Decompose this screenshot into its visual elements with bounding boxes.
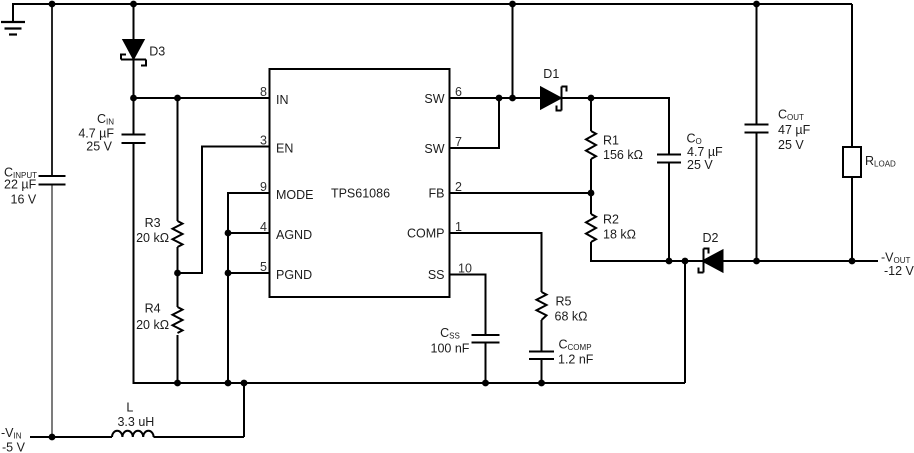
svg-text:22 µF: 22 µF — [4, 178, 37, 192]
svg-text:R2: R2 — [603, 213, 619, 227]
node dot top rail SW drop — [509, 1, 516, 8]
node dot AGND — [225, 230, 232, 237]
svg-text:R1: R1 — [603, 134, 619, 148]
node dot IN/C_IN — [130, 95, 137, 102]
resistor R1 — [586, 131, 596, 159]
diode D1 schottky — [541, 87, 567, 111]
resistor R4 — [173, 307, 183, 333]
svg-text:25 V: 25 V — [687, 158, 713, 172]
resistor R3 — [173, 221, 183, 247]
node dot PGND — [225, 270, 232, 277]
svg-text:CCOMP: CCOMP — [559, 338, 592, 353]
wire -Vout to bottom rail — [684, 261, 686, 383]
wire D3 to IN node — [133, 60, 135, 98]
svg-text:-VOUT: -VOUT — [881, 251, 911, 266]
node dot rail drop — [682, 258, 689, 265]
wire top ground rail — [13, 4, 852, 22]
wire SW pin7 jog — [449, 98, 500, 148]
svg-text:6: 6 — [455, 85, 462, 99]
wire -Vin right of inductor — [154, 436, 245, 438]
wire MODE pin drop — [228, 193, 271, 383]
svg-text:20 kΩ: 20 kΩ — [136, 231, 169, 245]
svg-text:1: 1 — [455, 220, 462, 234]
svg-text:PGND: PGND — [276, 268, 312, 282]
wire R_LOAD bottom — [851, 177, 853, 261]
node dot rail C_OUT bottom — [753, 258, 760, 265]
wire SW node drop from top rail — [512, 4, 514, 98]
svg-text:9: 9 — [260, 180, 267, 194]
wire R1 top — [590, 98, 592, 131]
svg-text:4.7 µF: 4.7 µF — [687, 145, 723, 159]
svg-text:CSS: CSS — [440, 326, 460, 341]
node dot SW7 join — [496, 95, 503, 102]
svg-text:SW: SW — [424, 142, 444, 156]
resistor R5 — [537, 292, 547, 320]
wire R1 bottom to FB — [590, 159, 592, 193]
svg-text:2: 2 — [455, 180, 462, 194]
wire AGND pin — [228, 232, 271, 234]
capacitor C_IN — [122, 135, 146, 144]
svg-text:8: 8 — [260, 85, 267, 99]
wire R2 bottom to -Vout rail — [591, 242, 703, 261]
svg-text:100 nF: 100 nF — [431, 341, 470, 355]
svg-text:TPS61086: TPS61086 — [331, 187, 390, 201]
svg-text:SW: SW — [424, 92, 444, 106]
svg-text:1.2 nF: 1.2 nF — [558, 353, 594, 367]
node dot top rail C_OUT — [753, 1, 760, 8]
wire C_COMP bottom — [541, 359, 543, 383]
wire C_INPUT branch lower — [51, 185, 53, 437]
capacitor C_O — [657, 155, 681, 163]
wire SS pin to C_SS — [449, 275, 486, 335]
ground symbol — [1, 22, 25, 35]
wire C_OUT top — [756, 4, 758, 124]
svg-text:R5: R5 — [556, 295, 572, 309]
svg-text:-12 V: -12 V — [884, 264, 914, 278]
wire R3 top — [177, 98, 179, 221]
svg-text:5: 5 — [260, 260, 267, 274]
svg-text:25 V: 25 V — [778, 138, 804, 152]
svg-text:4: 4 — [260, 220, 267, 234]
node dot bottom rail R4 — [174, 380, 181, 387]
svg-text:CO: CO — [687, 132, 702, 147]
svg-text:D1: D1 — [543, 67, 559, 81]
svg-text:EN: EN — [276, 142, 293, 156]
svg-text:20 kΩ: 20 kΩ — [136, 318, 169, 332]
svg-text:SS: SS — [428, 268, 445, 282]
svg-text:3.3 uH: 3.3 uH — [117, 415, 154, 429]
wire IN pin — [134, 97, 271, 99]
svg-text:68 kΩ: 68 kΩ — [555, 310, 588, 324]
node dot bottom rail C_SS — [482, 380, 489, 387]
wire EN pin jog — [178, 147, 271, 274]
wire C_OUT bottom — [756, 133, 758, 261]
wire C_INPUT branch upper — [51, 4, 53, 176]
node dot IN/R3 — [174, 95, 181, 102]
svg-text:-VIN: -VIN — [1, 426, 22, 441]
capacitor C_INPUT — [39, 176, 66, 185]
svg-text:4.7 µF: 4.7 µF — [78, 126, 114, 140]
node dot rail R_LOAD bottom — [849, 258, 856, 265]
resistor R_LOAD — [843, 147, 861, 177]
svg-text:R4: R4 — [145, 302, 161, 316]
node dot top rail D3 — [130, 1, 137, 8]
wire SW pin6 — [449, 97, 542, 99]
svg-text:RLOAD: RLOAD — [865, 154, 896, 169]
node dot R3/R4/EN — [174, 270, 181, 277]
wire PGND pin — [228, 272, 271, 274]
wire R4 bottom — [177, 335, 179, 383]
wire D1 output node — [562, 98, 669, 155]
wire C_IN lower to bottom rail — [134, 144, 686, 384]
svg-text:7: 7 — [455, 135, 462, 149]
svg-text:47 µF: 47 µF — [778, 123, 811, 137]
wire C_IN upper — [133, 98, 135, 134]
wire R2 top — [590, 193, 592, 214]
wire R3 bottom / R4 top — [177, 247, 179, 307]
svg-text:R3: R3 — [145, 216, 161, 230]
svg-text:25 V: 25 V — [86, 139, 112, 153]
wire -Vin left — [30, 436, 112, 438]
node dot -Vin C_INPUT — [49, 434, 56, 441]
svg-text:L: L — [126, 401, 133, 415]
wire R_LOAD top — [851, 4, 853, 147]
node dot top rail C_INPUT — [49, 1, 56, 8]
wire FB pin — [449, 192, 592, 194]
svg-text:-5 V: -5 V — [2, 441, 26, 453]
svg-text:10: 10 — [458, 262, 472, 276]
wire R5 bottom to C_COMP — [541, 320, 543, 352]
node dot bottom rail MODE — [225, 380, 232, 387]
wire L branch from bottom rail — [243, 383, 245, 437]
svg-text:3: 3 — [260, 134, 267, 148]
node dot bottom rail C_COMP — [538, 380, 545, 387]
node dot FB/R1/R2 — [588, 190, 595, 197]
svg-text:16 V: 16 V — [11, 193, 37, 207]
svg-text:156 kΩ: 156 kΩ — [603, 148, 643, 162]
node dot SW drop join — [509, 95, 516, 102]
svg-text:18 kΩ: 18 kΩ — [603, 228, 636, 242]
diode D3 schottky — [121, 40, 146, 66]
svg-text:IN: IN — [276, 93, 289, 107]
wire COMP pin to R5 — [449, 233, 542, 292]
svg-text:FB: FB — [429, 187, 445, 201]
svg-text:COMP: COMP — [407, 227, 445, 241]
wire C_O bottom — [668, 163, 670, 262]
svg-text:CIN: CIN — [97, 112, 114, 127]
svg-text:D3: D3 — [149, 44, 165, 58]
capacitor C_COMP — [529, 352, 554, 360]
resistor R2 — [586, 214, 596, 242]
svg-text:MODE: MODE — [276, 188, 314, 202]
inductor L 3.3uH — [112, 431, 154, 437]
node dot rail C_O — [666, 258, 673, 265]
IC U1 TPS61086 box — [270, 69, 450, 297]
svg-text:COUT: COUT — [778, 108, 804, 123]
capacitor C_OUT — [745, 125, 769, 133]
svg-text:D2: D2 — [703, 231, 719, 245]
wire D3 branch top — [133, 4, 135, 40]
diode D2 schottky — [699, 249, 723, 273]
node dot D1/R1 — [588, 95, 595, 102]
capacitor C_SS — [472, 335, 500, 343]
node dot bottom rail L — [241, 380, 248, 387]
svg-text:AGND: AGND — [276, 228, 312, 242]
wire -Vout rail right of D2 — [723, 260, 879, 262]
wire C_SS bottom — [485, 343, 487, 384]
